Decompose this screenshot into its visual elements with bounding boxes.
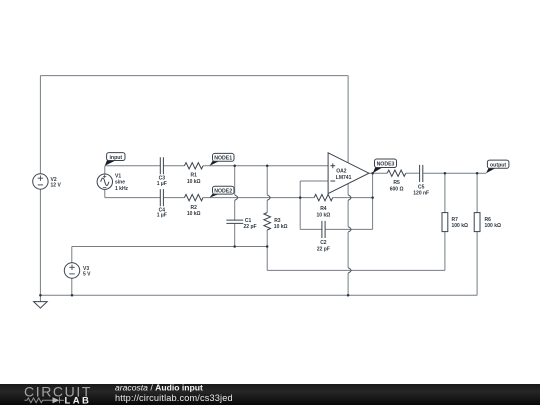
svg-text:input: input	[109, 155, 122, 161]
svg-text:R7: R7	[452, 217, 459, 223]
svg-text:NODE1: NODE1	[214, 156, 232, 162]
svg-text:1 µF: 1 µF	[157, 181, 167, 187]
svg-text:http://circuitlab.com/cs33jed: http://circuitlab.com/cs33jed	[115, 393, 233, 403]
svg-text:10 kΩ: 10 kΩ	[187, 179, 201, 185]
svg-text:LAB: LAB	[65, 396, 92, 405]
svg-text:100 kΩ: 100 kΩ	[485, 223, 502, 229]
svg-text:NODE2: NODE2	[214, 189, 232, 195]
svg-text:sine: sine	[115, 180, 125, 186]
svg-text:R4: R4	[320, 206, 327, 212]
svg-text:OA2: OA2	[336, 169, 347, 175]
svg-text:output: output	[490, 162, 506, 168]
svg-text:C5: C5	[418, 184, 425, 190]
svg-text:10 kΩ: 10 kΩ	[274, 224, 288, 230]
svg-text:22 pF: 22 pF	[244, 224, 257, 230]
svg-text:10 kΩ: 10 kΩ	[187, 211, 201, 217]
svg-text:12 V: 12 V	[51, 183, 62, 189]
svg-text:R5: R5	[393, 180, 400, 186]
svg-text:1 kHz: 1 kHz	[115, 186, 129, 192]
svg-text:120 nF: 120 nF	[413, 191, 429, 197]
svg-text:10 kΩ: 10 kΩ	[317, 212, 331, 218]
svg-text:1 µF: 1 µF	[157, 213, 167, 219]
svg-text:100 kΩ: 100 kΩ	[452, 223, 469, 229]
svg-text:aracosta / Audio input: aracosta / Audio input	[115, 382, 203, 392]
svg-text:V1: V1	[115, 173, 121, 179]
svg-text:C2: C2	[320, 240, 327, 246]
svg-text:5 V: 5 V	[83, 272, 91, 278]
svg-text:R6: R6	[485, 217, 492, 223]
svg-text:R1: R1	[190, 173, 197, 179]
svg-text:22 pF: 22 pF	[317, 246, 330, 252]
svg-text:R2: R2	[190, 205, 197, 211]
svg-text:LM741: LM741	[336, 175, 352, 181]
svg-text:600 Ω: 600 Ω	[390, 187, 404, 193]
svg-text:NODE3: NODE3	[377, 162, 395, 168]
